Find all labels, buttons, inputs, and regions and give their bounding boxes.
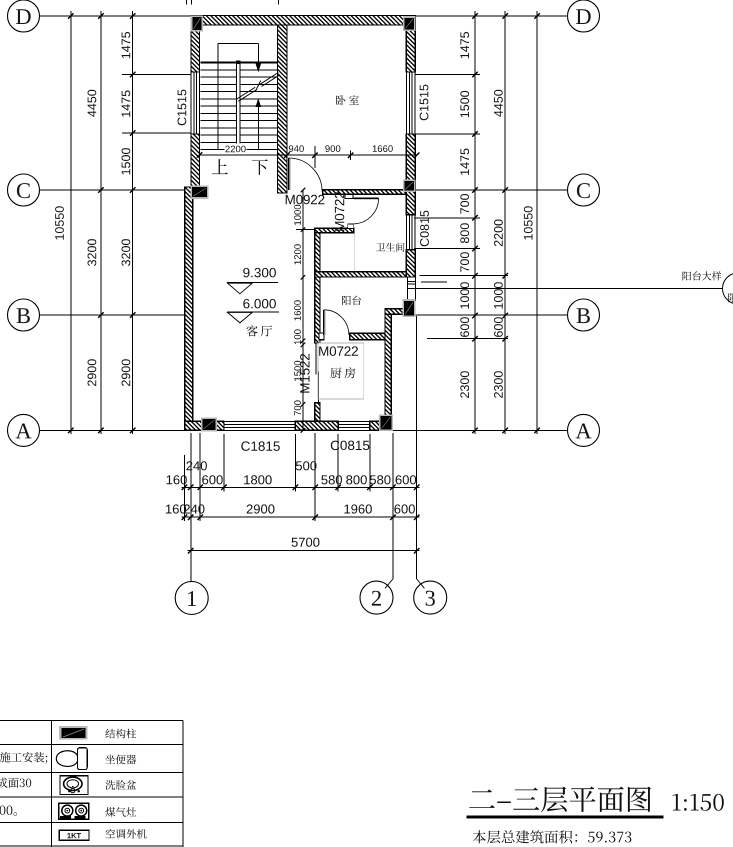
ticks right mid chain (502, 13, 508, 19)
level mark 9.300 (243, 268, 276, 278)
bathroom south wall (315, 272, 407, 277)
top exterior wall (191, 15, 415, 25)
balcony railing (406, 277, 408, 301)
dim line bedroom south (287, 154, 417, 156)
label M0922 (286, 195, 325, 205)
left exterior wall lower (185, 187, 193, 421)
label M0722 kitchen (319, 346, 358, 356)
room label balcony (342, 296, 361, 306)
label M1522 (300, 354, 310, 393)
bottom exterior wall seg1 (185, 421, 224, 430)
dim label 1600 interior (294, 300, 301, 320)
ext v 184.4 (183, 455, 185, 521)
legend label toilet (105, 755, 136, 765)
dim label 800 row1 (346, 475, 367, 484)
ticks left inner chain (130, 13, 136, 19)
dim label 600 row2 (394, 504, 415, 513)
title text (469, 787, 651, 813)
bedroom south wall (323, 190, 407, 195)
legend symbol basin (60, 776, 88, 795)
note text 1 (0, 752, 47, 764)
dim label 2900 row2 (247, 504, 275, 513)
dim label 700 right inner (460, 194, 469, 214)
legend label stove (105, 807, 136, 817)
dim label 5700 (292, 538, 320, 547)
legend label column (105, 729, 136, 739)
ticks right inner chain (472, 13, 478, 19)
level mark 6.000 (243, 299, 276, 309)
legend v line left (50, 721, 52, 847)
legend h line 1 (0, 743, 183, 745)
legend v line right (182, 721, 184, 847)
dim label 580 row1 (370, 475, 391, 484)
kitchen east wall (385, 309, 391, 422)
dim label 240 row2 (184, 504, 205, 513)
dim label 600 row1 (202, 475, 223, 484)
column balcony SE (403, 299, 416, 317)
grid line B (40, 314, 185, 316)
bottom exterior wall seg3 (370, 421, 392, 430)
label balcony detail (683, 271, 722, 280)
label C1515 right (420, 85, 429, 121)
legend label basin (105, 780, 136, 790)
dim label 10550 left (55, 206, 64, 239)
grid bubble D right (568, 0, 600, 32)
dim label 1500 interior (294, 361, 301, 381)
window C1815 bottom wall (224, 420, 295, 422)
legend h line 2 (0, 771, 183, 773)
dim label 240 row1 (186, 461, 207, 470)
dim chain line left mid (100, 11, 102, 434)
column A1 (201, 418, 217, 432)
ext v 200.2 (199, 433, 201, 521)
ext v 369.9 (369, 434, 371, 492)
legend label ac unit (105, 829, 146, 839)
stair-bedroom divider wall (278, 25, 288, 193)
stair handrail (237, 61, 240, 144)
dim label 1500 left inner (122, 148, 131, 174)
dim label 1000 right inner (460, 282, 469, 308)
dim label 900 (325, 145, 340, 152)
kitchen west wall (315, 403, 320, 422)
balcony notch wall (385, 309, 406, 314)
dim label 3200 left mid (88, 239, 97, 266)
ext line y74.5 left (122, 74, 191, 76)
title underline (466, 816, 663, 819)
window C0815 right wall (405, 215, 407, 250)
dim label 2900 left mid (88, 359, 97, 386)
grid bubble B left (8, 299, 40, 331)
dim label 160 row2 (166, 504, 186, 513)
legend symbol column (59, 726, 88, 739)
grid line C (40, 189, 185, 191)
dim label 1475 right inner (460, 149, 469, 175)
ext v 295.4 (294, 434, 296, 492)
legend h line 0 (0, 720, 183, 722)
dim label 1000 right mid (494, 282, 503, 308)
door M0922 bedroom (288, 158, 290, 190)
grid bubble C left (8, 174, 40, 206)
ext line y74.5 right (415, 74, 480, 76)
legend symbol stove (59, 803, 89, 819)
title scale 1:150 (673, 794, 724, 811)
dim label 10550 right (524, 206, 533, 239)
kitchen north wall stub (319, 333, 324, 339)
right exterior wall seg2 (406, 134, 415, 215)
grid line D (40, 15, 192, 17)
dim label 3200 left inner (122, 239, 131, 266)
left exterior wall upper seg2 (191, 134, 200, 187)
label C1815 bottom (241, 441, 279, 451)
legend h line 5 (0, 845, 183, 847)
dim label 2300 right mid (494, 371, 503, 398)
stair arrow down (256, 63, 262, 72)
stair arrow up (256, 98, 262, 107)
left exterior wall upper seg1 (191, 15, 200, 72)
grid bubble C right (568, 174, 600, 206)
legend symbol toilet (56, 751, 78, 767)
door M0722 bathroom (345, 194, 353, 198)
grid bubble D left (8, 0, 40, 32)
dim row3 line (188, 550, 420, 552)
ext line y133 left (122, 132, 191, 134)
room label bedroom (336, 95, 359, 105)
dim label 1500 right inner (460, 91, 469, 117)
room label bathroom (376, 243, 404, 252)
dim label 800 right inner (460, 223, 469, 243)
room label kitchen (330, 367, 355, 378)
dim label 580 row1 (321, 475, 342, 484)
dim label 940 (289, 145, 304, 152)
kitchen counter gray outline (318, 343, 364, 399)
dim label 500 row1 (296, 461, 317, 470)
top edge ext stubs (185, 0, 187, 5)
stair bottom line (200, 154, 288, 156)
ext v 190.7 to bubble1 (190, 433, 192, 581)
dim label 2300 right inner (460, 371, 469, 398)
detail bubble clipped (723, 273, 733, 304)
dim row1 line (181, 486, 419, 488)
dim label 1000 interior (294, 205, 301, 225)
window C1515 left wall (190, 72, 192, 134)
ext line y217.8 right (414, 217, 480, 219)
title area text (473, 830, 632, 843)
ext v 338.2 (337, 434, 339, 492)
corridor south wall (315, 228, 354, 233)
label C1515 left (178, 90, 187, 126)
ext v 315.2 (314, 433, 316, 521)
dim label 1200 interior (294, 244, 301, 264)
dim label 2200 right mid (494, 220, 503, 247)
window C0815 bottom wall (338, 420, 370, 422)
ext line y248.5 right (414, 248, 480, 250)
grid bubble B right (568, 299, 600, 331)
kitchen north wall (350, 333, 385, 339)
window C1515 right wall (405, 72, 407, 134)
ext v 392.9 to bubble2 (392, 433, 394, 579)
door M0722 kitchen (319, 333, 324, 339)
dim label 600 right inner (460, 317, 469, 337)
dim label 2900 left inner (122, 359, 131, 386)
legend symbol ac unit (59, 830, 89, 840)
bathroom divider gray line (354, 233, 356, 272)
dim label 600 row1 (396, 475, 417, 484)
column D3 (403, 16, 416, 31)
dim label 600 right mid (494, 317, 503, 337)
dim 2200 stairs (225, 144, 247, 154)
column D1 (191, 16, 203, 32)
dim label 1475 left inner (122, 90, 131, 116)
dim row2 line (181, 516, 419, 518)
stair break line (237, 73, 280, 102)
bathroom west partition (315, 233, 320, 343)
dim chain line left inner (132, 11, 134, 434)
ticks right outer chain (534, 13, 540, 19)
dim label 100 interior (294, 329, 301, 344)
legend h line 4 (0, 821, 183, 823)
dim chain line right mid (504, 11, 506, 434)
ext line y134 right (415, 133, 480, 135)
grid bubble 2 (360, 581, 393, 614)
column A2 (379, 414, 393, 431)
note text 3 (0, 806, 17, 816)
leader line balcony detail (416, 288, 723, 290)
column C1 (191, 186, 209, 199)
dim chain living room east (302, 190, 304, 430)
dim label 4450 right mid (494, 90, 503, 117)
dim label 1475 right inner (460, 32, 469, 58)
dim label 1660 (373, 145, 393, 152)
grid bubble 1 (175, 582, 208, 615)
ext v 416.7 to bubble3 (416, 316, 418, 579)
label xia (down) (252, 159, 268, 175)
right exterior wall seg1 (406, 15, 415, 72)
dim label 1475 left inner (122, 32, 131, 58)
grid bubble A right (568, 414, 600, 446)
dim label 1960 row2 (344, 504, 372, 513)
label C0815 right (420, 211, 429, 247)
legend h line 3 (0, 796, 183, 798)
ext line y275.7 right (420, 275, 509, 277)
note text 2 (0, 778, 31, 788)
dim chain line right outer (536, 11, 538, 434)
ticks left outer chain (68, 13, 74, 19)
bottom exterior wall seg2 (295, 421, 338, 430)
label M0722 bathroom (335, 192, 345, 231)
dim label 160 row1 (167, 475, 187, 484)
grid line A (40, 429, 185, 431)
column C3 (403, 179, 416, 192)
door M1522 sliding (315, 343, 317, 375)
dim label 700 interior (294, 400, 301, 415)
dim chain line right inner (474, 11, 476, 434)
dim label 4450 left mid (88, 90, 97, 117)
room label living room (247, 325, 273, 336)
grid bubble 3 (414, 581, 447, 614)
stair treads (201, 62, 278, 64)
label shang (up) (212, 159, 228, 174)
grid bubble A left (8, 414, 40, 446)
dim chain line left outer (70, 11, 72, 434)
ext v 224.0 (223, 434, 225, 492)
ext line y338.7 right (427, 338, 508, 340)
dim label 700 right inner (460, 252, 469, 272)
ticks left mid chain (98, 13, 104, 19)
stair flight path (217, 43, 219, 149)
dim label 1800 row1 (244, 475, 272, 484)
label C0815 bottom (331, 441, 370, 451)
right exterior wall seg3 (406, 250, 415, 277)
